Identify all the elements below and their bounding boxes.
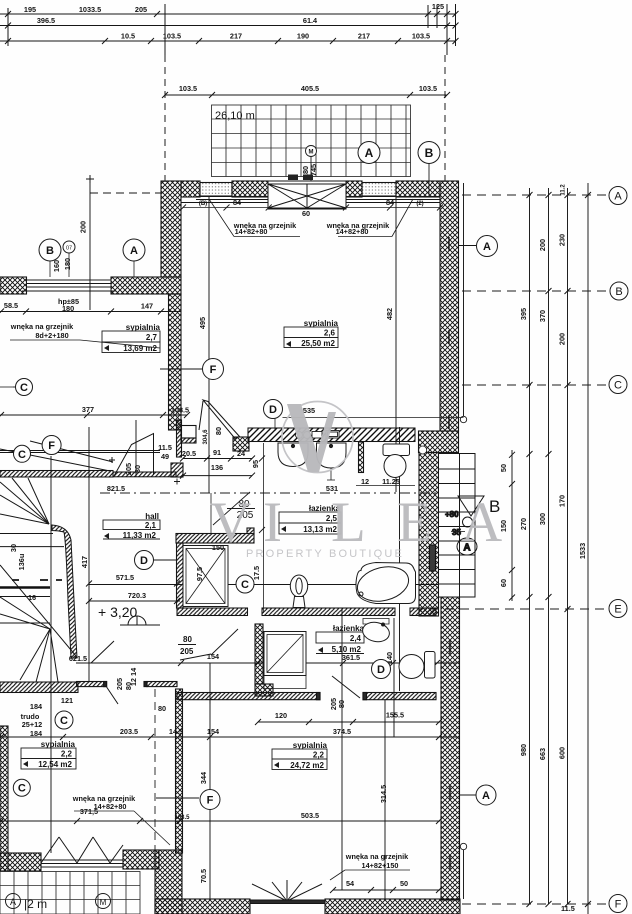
svg-text:205: 205 [180,647,194,656]
svg-text:495: 495 [198,317,207,329]
svg-text:980: 980 [519,744,528,756]
svg-text:217: 217 [230,32,242,41]
pedestal bidet in bathroom [290,575,307,608]
door swing lower-left room [91,641,118,704]
svg-text:E: E [614,604,621,616]
svg-text:205: 205 [135,5,147,14]
svg-text:14+82+80: 14+82+80 [336,227,369,236]
svg-text:361.5: 361.5 [342,653,360,662]
svg-text:136u: 136u [17,554,26,571]
svg-text:80: 80 [337,700,346,708]
diagonal-hatch bands [0,428,436,693]
svg-text:184: 184 [30,702,43,711]
svg-text:(2): (2) [416,201,423,207]
svg-text:2,2: 2,2 [61,750,73,759]
svg-text:304,6: 304,6 [203,429,209,445]
svg-text:60: 60 [302,209,310,218]
svg-text:A: A [482,790,490,802]
svg-text:396.5: 396.5 [37,16,55,25]
long interior vertical lines [51,183,464,899]
room label: sypialnia 2.6 [284,319,339,348]
svg-text:A: A [483,241,491,253]
svg-text:F: F [207,795,214,807]
svg-text:F: F [210,364,217,376]
svg-text:103.5: 103.5 [163,32,181,41]
svg-text:14+82+150: 14+82+150 [362,861,399,870]
svg-text:80: 80 [183,635,192,644]
svg-text:200: 200 [558,333,567,345]
svg-text:84: 84 [233,198,242,207]
svg-text:10.5: 10.5 [121,32,135,41]
right dim chain x512 [509,450,515,601]
svg-text:154: 154 [207,652,220,661]
grid row dashed lines + circles right edge [430,195,607,904]
svg-text:wnęka na grzejnik: wnęka na grzejnik [345,852,409,861]
entrance marker triangle [445,496,484,555]
svg-text:50: 50 [400,879,408,888]
room label: lazienka 2.4 [316,624,365,654]
dim tick slashes interior [0,309,442,894]
svg-text:2,4: 2,4 [350,634,362,643]
east wall lower [441,597,460,900]
svg-text:C: C [18,783,26,795]
bathroom counter fixtures [296,431,340,439]
dash-dot line y493 [100,492,460,494]
svg-text:14+82+80: 14+82+80 [94,802,127,811]
svg-text:M: M [309,150,314,156]
bathtub [354,562,416,607]
svg-text:11.5: 11.5 [158,443,172,452]
svg-text:1033.5: 1033.5 [79,5,101,14]
lower bathroom walls [255,624,263,684]
room label: sypialnia 2.2 left [21,740,76,769]
svg-text:377: 377 [82,405,94,414]
svg-text:2,1: 2,1 [145,521,157,530]
svg-text:136: 136 [211,463,223,472]
svg-text:M: M [100,898,107,907]
svg-text:A: A [10,897,16,907]
svg-text:121: 121 [61,696,73,705]
svg-text:621.5: 621.5 [69,654,87,663]
svg-text:97,5: 97,5 [195,567,204,581]
svg-text:370: 370 [538,310,547,322]
svg-text:200: 200 [79,221,88,233]
svg-text:395: 395 [519,308,528,320]
svg-text:205: 205 [124,463,133,475]
svg-text:103.5: 103.5 [412,32,430,41]
lines from circles B,07,A down to wall [0,253,134,387]
svg-text:C: C [20,382,28,394]
svg-text:571.5: 571.5 [116,573,134,582]
door swing hall top [109,434,154,477]
svg-text:374.5: 374.5 [333,727,351,736]
svg-text:600: 600 [558,747,567,759]
svg-text:07: 07 [66,246,72,252]
stairs bottom-left (winder) [0,441,113,682]
left wing window [22,280,116,291]
svg-text:C: C [18,449,26,461]
svg-text:103.5: 103.5 [419,84,437,93]
bottom left terrace label [6,894,21,909]
svg-text:17.5: 17.5 [252,566,261,580]
svg-text:C: C [241,579,249,591]
svg-text:203.5: 203.5 [120,727,138,736]
svg-text:217: 217 [358,32,370,41]
svg-text:25+12: 25+12 [22,720,43,729]
svg-text:821.5: 821.5 [107,484,125,493]
svg-text:195: 195 [24,5,36,14]
radiator niche texts [10,199,443,880]
svg-text:120: 120 [275,711,287,720]
svg-text:95: 95 [251,460,260,468]
svg-text:180: 180 [62,304,74,313]
svg-text:24,72 m2: 24,72 m2 [290,761,324,770]
ladder / outside stairs [439,454,476,598]
svg-text:A: A [461,491,502,554]
left wing top wall [0,277,27,294]
terrace tiles bottom-left [0,872,140,914]
svg-text:D: D [140,555,148,567]
door swing bedroom->hall [199,400,240,439]
washbasin lazienka 2.4 [361,619,391,645]
bottom-left room walls [77,682,107,687]
tick slashes top [5,11,459,44]
svg-text:14+82+80: 14+82+80 [235,227,268,236]
svg-text:PROPERTY BOUTIQUE: PROPERTY BOUTIQUE [246,548,404,560]
svg-text:91: 91 [213,448,221,457]
svg-text:190: 190 [297,32,309,41]
svg-text:49: 49 [161,452,169,461]
circle B on terrace [418,142,440,164]
svg-text:154: 154 [207,727,220,736]
svg-text:155.5: 155.5 [386,711,404,720]
svg-text:405.5: 405.5 [301,84,319,93]
svg-text:80: 80 [158,704,166,713]
terrace dim line [162,92,450,98]
room label: hall 2.1 [103,512,160,540]
svg-text:11.25: 11.25 [382,477,400,486]
shower lazienka 2.4 [264,632,306,689]
svg-text:663: 663 [538,748,547,760]
walls (cross-hatched) [0,181,460,914]
svg-text:8d+2+180: 8d+2+180 [35,331,68,340]
svg-text:A: A [614,191,622,203]
svg-text:84: 84 [386,198,395,207]
svg-text:503.5: 503.5 [301,811,319,820]
svg-text:16: 16 [28,593,36,602]
shower hall (2.5) [183,546,228,607]
french door X glazing [268,181,346,209]
svg-text:A: A [130,245,138,257]
top dimension lines [0,4,456,55]
svg-text:12,54 m2: 12,54 m2 [38,760,72,769]
svg-text:745: 745 [309,164,318,176]
svg-text:80: 80 [133,465,142,473]
svg-text:I: I [263,491,282,554]
svg-text:D: D [377,664,385,676]
door swing lazienka 2.4 bottom [332,676,360,698]
svg-text:|2 m: |2 m [24,897,47,911]
svg-text:25,50 m2: 25,50 m2 [301,339,335,348]
svg-text:(B): (B) [199,201,207,207]
wc upper [383,444,410,478]
bathroom top walls [181,438,196,443]
svg-text:58.5: 58.5 [4,301,18,310]
horizontal dim lines [0,246,477,891]
svg-text:A: A [365,146,374,160]
svg-text:B: B [425,146,434,160]
svg-text:F: F [615,899,622,911]
svg-text:184: 184 [30,729,43,738]
svg-text:2,7: 2,7 [146,333,158,342]
svg-text:11.2: 11.2 [561,184,567,196]
svg-text:417: 417 [80,556,89,568]
svg-text:125: 125 [432,2,444,11]
svg-text:C: C [60,715,68,727]
svg-text:20.5: 20.5 [182,449,196,458]
svg-text:314.5: 314.5 [379,785,388,803]
small circle M on terrace [306,146,317,157]
svg-text:535: 535 [303,406,315,415]
svg-text:24: 24 [237,449,246,458]
svg-text:61.4: 61.4 [303,16,318,25]
room label: sypialnia 2.2 center [272,741,328,770]
washbasin 1 [278,443,308,467]
svg-text:80: 80 [214,427,223,435]
svg-text:2,2: 2,2 [313,751,325,760]
svg-text:12 14: 12 14 [129,667,138,686]
top windows sills [181,197,440,203]
svg-text:300: 300 [538,513,547,525]
room label: lazienka 2.5 [279,504,341,534]
svg-text:205: 205 [115,678,124,690]
svg-text:344: 344 [199,771,208,784]
svg-text:270: 270 [519,518,528,530]
svg-text:163.5: 163.5 [174,815,190,821]
svg-text:180: 180 [63,258,72,270]
svg-text:14.5: 14.5 [169,727,183,736]
right long dim lines [530,183,589,914]
svg-text:70.5: 70.5 [199,869,208,883]
circle A on terrace [358,142,380,164]
svg-text:200: 200 [538,239,547,251]
svg-text:+80: +80 [445,510,459,519]
bottom-center window [250,880,325,904]
svg-text:11.5: 11.5 [561,904,575,913]
svg-text:30: 30 [9,544,18,552]
svg-text:B: B [615,286,622,298]
svg-text:E: E [397,491,432,554]
svg-text:F: F [48,440,55,452]
dim texts [4,198,415,888]
svg-text:230: 230 [558,234,567,246]
washbasin 2 [317,443,347,480]
svg-text:170: 170 [558,495,567,507]
svg-text:D: D [269,404,277,416]
bottom-left window [41,837,123,867]
wc lazienka 2.4 [399,652,435,679]
svg-text:L: L [331,491,366,554]
rotated dim texts [9,258,394,883]
svg-text:482: 482 [385,308,394,320]
svg-text:26,10 m: 26,10 m [215,110,255,122]
svg-text:54: 54 [346,879,355,888]
bottom band [155,899,250,914]
svg-text:wnęka na grzejnik: wnęka na grzejnik [10,322,74,331]
construction dashed verticals [165,55,445,184]
top dim labels [24,2,444,41]
svg-text:B: B [46,245,54,257]
dashed beside bottom-left room wall [154,689,156,853]
svg-text:V: V [210,491,251,554]
svg-text:C: C [614,380,622,392]
dashed left row A [90,192,162,194]
watermark [210,402,502,561]
east wall upper [440,181,459,431]
svg-text:103.5: 103.5 [179,84,197,93]
svg-text:720.3: 720.3 [128,591,146,600]
svg-text:160: 160 [52,260,61,272]
svg-text:50: 50 [499,464,508,472]
room label: sypialnia 2.7 [102,323,161,353]
svg-text:371,5: 371,5 [80,807,98,816]
svg-text:103.5: 103.5 [171,406,189,415]
svg-text:12: 12 [361,477,369,486]
svg-text:60: 60 [499,579,508,587]
svg-text:13,69 m2: 13,69 m2 [123,344,157,353]
small circles on east line [460,416,466,422]
grid circles interior [13,236,497,810]
svg-text:2,6: 2,6 [324,329,336,338]
terrace tile grid top [212,105,411,177]
svg-text:147: 147 [141,302,153,311]
svg-text:1533: 1533 [578,543,587,559]
